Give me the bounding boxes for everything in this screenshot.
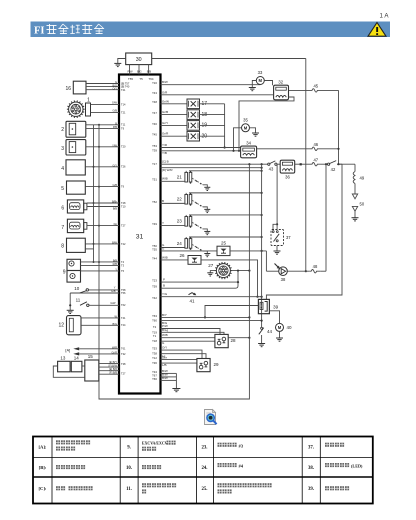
svg-text:T63: T63 [152, 314, 157, 318]
solenoid 7 box [61, 219, 86, 232]
wire injector 17 to rail [200, 103, 225, 105]
svg-text:T2: T2 [153, 325, 157, 329]
wire W/B ECU to sensor 26 [152, 255, 188, 260]
svg-text:Gr/Y: Gr/Y [162, 121, 168, 125]
wire relay36 to fuse 47 [295, 163, 302, 165]
label 31 [136, 234, 144, 241]
svg-text:B: B [162, 199, 164, 203]
sensor 26 [179, 253, 201, 264]
wires 8 to ECU [85, 240, 126, 249]
component 13 box [58, 355, 71, 372]
legend num 10 [126, 466, 132, 471]
ignition coil 22 [177, 193, 192, 206]
svg-text:24: 24 [177, 241, 183, 246]
svg-text:38: 38 [281, 277, 286, 282]
svg-text:M: M [244, 125, 248, 130]
svg-text:T14: T14 [121, 103, 126, 107]
svg-text:(LED): (LED) [351, 464, 363, 469]
legend text A4 [325, 443, 344, 447]
wires 16 to ECU [86, 80, 130, 92]
svg-text:34: 34 [246, 140, 251, 145]
svg-text:6: 6 [61, 206, 64, 212]
svg-text:15: 15 [88, 354, 94, 359]
svg-text:T56: T56 [121, 291, 126, 295]
wires 6 to ECU [87, 200, 126, 211]
wire motor35 left to Y/B [232, 128, 241, 152]
svg-text:G: G [162, 246, 165, 250]
svg-text:[F] B/B: [F] B/B [109, 372, 117, 375]
svg-text:P/B: P/B [113, 125, 117, 129]
wire G/B switch 10 [70, 289, 126, 295]
svg-text:23.: 23. [202, 446, 208, 451]
svg-text:R/B: R/B [113, 262, 118, 266]
long rail 261 [261, 164, 263, 327]
svg-text:T38: T38 [121, 362, 126, 366]
svg-text:B/B: B/B [113, 258, 117, 262]
switch 44 [259, 327, 273, 334]
wire B/Lg T19 to sensor 28 [152, 328, 224, 335]
svg-text:[D] W/R: [D] W/R [162, 168, 173, 172]
svg-text:Gr/R: Gr/R [112, 350, 118, 354]
svg-text:T59: T59 [152, 285, 157, 289]
svg-text:Dg: Dg [114, 222, 118, 226]
legend text C1 [56, 486, 93, 490]
svg-text:[F] B/W: [F] B/W [109, 365, 118, 368]
switch 11 [76, 298, 126, 308]
svg-text:G/R: G/R [162, 90, 168, 94]
wire P drop to ECU [237, 271, 239, 283]
wire Gr/B to injector 18 [152, 110, 187, 115]
wire Lg T38 to sensor 29 [152, 352, 206, 359]
wire B/W ECU to motor 33 [152, 80, 260, 85]
svg-text:46: 46 [313, 142, 318, 147]
legend text B2 [142, 465, 161, 469]
wire motor33 to solenoid 32 [264, 81, 272, 86]
svg-text:T18: T18 [152, 339, 157, 343]
svg-text:B/Y: B/Y [162, 313, 167, 317]
svg-text:35: 35 [243, 117, 248, 122]
wire [D] W/R ECU to rail [161, 168, 262, 172]
ground below 37 [274, 251, 281, 254]
svg-text:30: 30 [136, 57, 142, 63]
wire coil 21 top to rail [189, 170, 263, 172]
svg-text:T20: T20 [121, 145, 126, 149]
svg-text:4: 4 [61, 166, 64, 172]
svg-text:T12: T12 [152, 356, 157, 360]
svg-text:45: 45 [313, 84, 318, 89]
legend text C2 [142, 483, 176, 493]
wire pump38 left [266, 270, 278, 272]
left sensor bus [93, 125, 95, 262]
svg-text:T52: T52 [152, 200, 157, 204]
svg-text:T66: T66 [152, 377, 157, 381]
legend text A3 [218, 443, 244, 449]
svg-text:T9: T9 [121, 127, 125, 131]
resistor 49 [353, 172, 365, 184]
arrow wire Gr/R to [A] [73, 350, 126, 355]
wire Y/G ECU to rail with diode 41 [152, 292, 263, 300]
wire P/W T2 to sensor 28 [153, 324, 220, 334]
svg-text:T53: T53 [152, 347, 157, 351]
junction D-wire rail 261 [261, 163, 263, 169]
svg-text:B/W: B/W [162, 376, 168, 380]
svg-text:B/Br: B/Br [112, 200, 117, 204]
wire down to switch 37 [276, 164, 278, 225]
ground return loop wire [99, 125, 249, 399]
wire relay39 to motor 40 [269, 311, 279, 324]
svg-text:B/G: B/G [113, 322, 117, 326]
starter relay 39 box [258, 299, 278, 313]
svg-text:B/Lg: B/Lg [162, 328, 169, 332]
wire P to ECU [152, 278, 238, 283]
svg-text:9.: 9. [127, 446, 131, 451]
svg-text:T51: T51 [152, 178, 157, 182]
wire 37 to ground [276, 246, 278, 251]
wire [C] B ECU to switch 43 [152, 160, 268, 166]
wire relay30 to rail A [152, 58, 306, 60]
svg-text:G/W: G/W [110, 301, 116, 305]
svg-text:39: 39 [273, 305, 279, 310]
svg-text:40: 40 [286, 325, 292, 330]
svg-text:7: 7 [61, 225, 64, 231]
wire sensor28 right [228, 337, 250, 339]
svg-text:22: 22 [177, 197, 183, 202]
svg-text:T23: T23 [152, 279, 157, 283]
wire W/B ECU to coil 21 [152, 177, 185, 182]
svg-text:T28: T28 [121, 201, 126, 205]
svg-text:T24: T24 [121, 323, 126, 327]
ground below 50 [352, 218, 359, 221]
pin labels T55 T5 T64 [128, 77, 154, 81]
legend num 24 [202, 466, 208, 471]
svg-text:Gr/W: Gr/W [162, 99, 169, 103]
svg-text:10.: 10. [126, 466, 132, 471]
svg-text:26: 26 [179, 253, 185, 258]
branch to 37 terminals [273, 224, 277, 229]
legend num 39 [308, 487, 314, 492]
svg-text:W/R: W/R [112, 345, 117, 349]
fuse 48 [287, 264, 326, 273]
wire 3 to ECU [86, 143, 126, 148]
wire Gr/W to injector 17 [152, 99, 187, 104]
svg-text:Y: Y [114, 286, 116, 290]
svg-text:T5: T5 [121, 269, 125, 273]
legend num 9 [127, 446, 131, 451]
svg-text:T55: T55 [152, 247, 157, 251]
svg-text:B/W: B/W [162, 80, 168, 84]
svg-text:[C] B: [C] B [162, 160, 169, 164]
component 4 box [61, 160, 85, 175]
svg-text:T21: T21 [121, 88, 126, 92]
junction fuse47 rail 326 [325, 163, 327, 165]
arrow 41 [189, 293, 197, 304]
svg-text:B/G: B/G [137, 69, 142, 73]
svg-text:3: 3 [61, 146, 64, 152]
component 14 box [71, 355, 82, 372]
svg-text:[A]:: [A]: [39, 445, 47, 450]
svg-text:T10: T10 [121, 204, 126, 208]
page corner label 1 A [380, 13, 390, 20]
svg-text:Gr/R: Gr/R [162, 132, 169, 136]
junction rail B fuse46 [337, 148, 339, 150]
legend text C4 [325, 486, 349, 490]
bus junction [98, 124, 100, 126]
injector 19 [187, 121, 207, 131]
switch 37 dashed box [271, 230, 291, 246]
wire L/B T36 to sensor 29 [152, 361, 197, 367]
ground below 44 [258, 344, 265, 347]
svg-text:11.: 11. [126, 487, 132, 492]
svg-text:P/W: P/W [127, 69, 133, 73]
purge valve 25 [217, 241, 230, 256]
svg-text:42: 42 [331, 167, 336, 172]
legend cell C [39, 486, 47, 491]
bus junction [93, 202, 95, 204]
svg-text:G/W: G/W [112, 101, 118, 105]
wire relay39 left to node [204, 306, 259, 319]
CKP sensor 27 wheel [208, 262, 232, 279]
legend text B3 [218, 463, 244, 469]
svg-text:T47: T47 [152, 111, 157, 115]
svg-text:T42: T42 [152, 296, 157, 300]
fuse 47 [301, 157, 328, 166]
svg-text:P: P [163, 278, 165, 282]
svg-text:12: 12 [58, 323, 64, 329]
legend cell B [39, 465, 47, 470]
wire valve25 to pump branch [230, 250, 266, 252]
bus junction [98, 261, 100, 263]
svg-text:B: B [115, 121, 117, 125]
svg-text:T43: T43 [152, 91, 157, 95]
svg-text:L/B: L/B [162, 363, 167, 367]
wire solenoid32 bottom loop [239, 97, 294, 151]
junction rail249 top [248, 163, 250, 165]
component 12 box [58, 316, 81, 335]
sensor 1 connector [86, 103, 91, 116]
solenoid 32 box [274, 79, 289, 99]
svg-text:13: 13 [60, 355, 66, 360]
svg-text:B/B: B/B [147, 69, 152, 73]
svg-text:5: 5 [61, 186, 64, 192]
legend text B4 [325, 463, 363, 469]
legend num 23 [202, 446, 208, 451]
svg-text:25: 25 [221, 241, 227, 246]
svg-text:[C]:: [C]: [39, 486, 47, 491]
connector [A] label [65, 347, 70, 352]
wire coil 22 top to rail [189, 192, 263, 194]
switch 10 [74, 286, 126, 292]
legend text C3 [218, 483, 272, 493]
svg-text:2: 2 [61, 127, 64, 133]
svg-text:T58: T58 [121, 288, 126, 292]
component 15 box [85, 354, 99, 381]
wires 2 to ECU [86, 121, 126, 130]
svg-text:16: 16 [65, 86, 71, 92]
svg-text:Y/R: Y/R [162, 143, 168, 147]
svg-text:T27: T27 [121, 371, 126, 375]
legend text A2 [142, 441, 176, 451]
node rail B to feed segment [337, 163, 355, 165]
arrow wire W/R to [A] [73, 345, 126, 350]
legend num 38 [308, 466, 314, 471]
wire G T18 to sensor 28 [152, 339, 215, 345]
wire coil 23 top to rail [189, 214, 263, 216]
rail B vertical [338, 90, 340, 164]
wires 12 to ECU [81, 314, 126, 327]
legend cell A [39, 445, 47, 450]
legend num 37 [308, 446, 314, 451]
svg-text:50: 50 [360, 202, 365, 207]
ground at motor 33 [249, 81, 256, 91]
wire B/W T67 [152, 373, 176, 378]
svg-text:#3: #3 [239, 443, 244, 448]
svg-text:31: 31 [136, 234, 144, 241]
legend text A1 [56, 440, 90, 450]
svg-text:37: 37 [286, 235, 291, 240]
motor 33 [256, 70, 264, 85]
svg-text:T4: T4 [121, 260, 125, 264]
component 8 box [61, 238, 85, 252]
svg-text:EXCVA/EXCVA: EXCVA/EXCVA [142, 441, 170, 445]
component 9 box [63, 259, 81, 282]
svg-text:T11: T11 [121, 123, 126, 127]
wire switches to ground [69, 293, 71, 310]
fuse 45 [289, 84, 339, 93]
svg-text:24.: 24. [202, 466, 208, 471]
svg-text:8: 8 [61, 244, 64, 250]
legend text B1 [56, 465, 85, 469]
svg-text:T60: T60 [152, 319, 157, 323]
svg-text:48: 48 [313, 264, 318, 269]
warning triangle icon [368, 23, 386, 37]
svg-text:27: 27 [208, 263, 214, 268]
svg-text:G/Y: G/Y [113, 163, 118, 167]
svg-text:25.: 25. [202, 487, 208, 492]
svg-text:W/B: W/B [162, 333, 168, 337]
svg-text:Dbr: Dbr [162, 355, 167, 359]
svg-text:T41: T41 [121, 316, 126, 320]
ground at sensor 27 [207, 271, 215, 276]
svg-text:Y/W: Y/W [112, 143, 117, 147]
svg-text:T17: T17 [152, 162, 157, 166]
title bar FI system wiring diagram [31, 22, 391, 38]
ground below motor 40 [276, 331, 283, 341]
wire 43 to relay 36 [277, 163, 280, 165]
legend table grid [33, 437, 373, 504]
wire motor35 right to ground [250, 128, 256, 133]
injector 17 [187, 99, 207, 109]
svg-text:T32: T32 [121, 352, 126, 356]
component 5 box [61, 181, 85, 194]
svg-text:14: 14 [74, 355, 80, 360]
wire sensor27 right [232, 270, 251, 272]
svg-text:G/B: G/B [113, 108, 118, 112]
svg-text:49: 49 [360, 176, 365, 181]
svg-text:T16: T16 [152, 81, 157, 85]
component 3 box [61, 140, 86, 155]
svg-text:T3: T3 [121, 263, 125, 267]
wire O/Y T53 to sensor 29 [152, 346, 202, 359]
wire injector 20 to rail [200, 135, 225, 137]
svg-text:29: 29 [213, 362, 219, 367]
rail A vertical from relay 30 [305, 59, 307, 272]
legend num 25 [202, 487, 208, 492]
svg-text:Y: Y [162, 221, 164, 225]
ground below switch 11 [67, 310, 74, 313]
wire Y ECU to coil 23 [152, 221, 185, 226]
branch down to pump relay 39 [266, 164, 342, 299]
svg-text:T22: T22 [121, 242, 126, 246]
ECM/ECU U31 box [119, 75, 161, 394]
svg-text:M: M [259, 78, 263, 83]
svg-text:21: 21 [177, 175, 183, 180]
svg-text:G/B: G/B [113, 183, 118, 187]
spark plug of coil 24 [192, 245, 210, 257]
svg-text:T49: T49 [152, 222, 157, 226]
wire trio to ground [175, 373, 177, 388]
ignition coil 23 [177, 215, 192, 228]
wires 9 to ECU [81, 258, 125, 272]
injector common rail [224, 104, 226, 149]
CKP rotor 1 [67, 98, 90, 118]
svg-text:T62: T62 [121, 303, 126, 307]
wire B/W T66 [152, 376, 176, 381]
relay 34 box [241, 140, 257, 157]
wires 15 to ECU [99, 361, 126, 375]
wire Dbr T12 to sensor 29 [152, 355, 197, 360]
svg-text:32: 32 [278, 79, 283, 84]
svg-text:T48: T48 [152, 100, 157, 104]
wire G ECU to valve 25 [152, 246, 217, 251]
svg-text:41: 41 [189, 298, 195, 303]
wire B/Y from T63 [152, 313, 250, 319]
svg-text:Gr/B: Gr/B [162, 110, 168, 114]
svg-text:44: 44 [267, 329, 273, 334]
wire B ECU to sensor 27 pair [152, 281, 239, 289]
relay 36 box [280, 160, 295, 179]
svg-text:B/W: B/W [112, 240, 117, 244]
svg-text:B/B: B/B [113, 207, 117, 211]
ground at relay 30 [114, 59, 125, 67]
svg-text:G: G [162, 341, 165, 345]
bus junction [93, 166, 95, 168]
wire 13-14 link [70, 365, 71, 367]
wire W/B T1 to sensor 28 [153, 333, 215, 338]
svg-text:47: 47 [313, 157, 318, 162]
wire B/G from T60 [152, 319, 263, 325]
svg-text:T46: T46 [152, 122, 157, 126]
wire coil 24 top to rail [189, 236, 263, 238]
svg-text:36: 36 [285, 174, 290, 179]
wire 49 to connector 50 [354, 184, 356, 195]
spark plug of coil 21 [192, 178, 210, 190]
ground at motor 35 [252, 133, 259, 136]
bus junction [93, 261, 95, 263]
ignition coil 21 [177, 171, 192, 184]
wire B/W T34 [152, 369, 176, 374]
switch 43 [268, 161, 277, 171]
svg-text:Y: Y [115, 267, 117, 271]
wire 5 to ECU [85, 183, 124, 188]
wire sensor26 right [201, 260, 259, 298]
svg-text:T39: T39 [152, 148, 157, 152]
wire feed down to 49 [354, 164, 356, 171]
svg-text:T55: T55 [128, 77, 133, 81]
svg-text:O/Y: O/Y [162, 346, 167, 350]
motor 35 [242, 117, 250, 131]
svg-text:T9: T9 [121, 185, 125, 189]
svg-text:T1: T1 [153, 334, 157, 338]
